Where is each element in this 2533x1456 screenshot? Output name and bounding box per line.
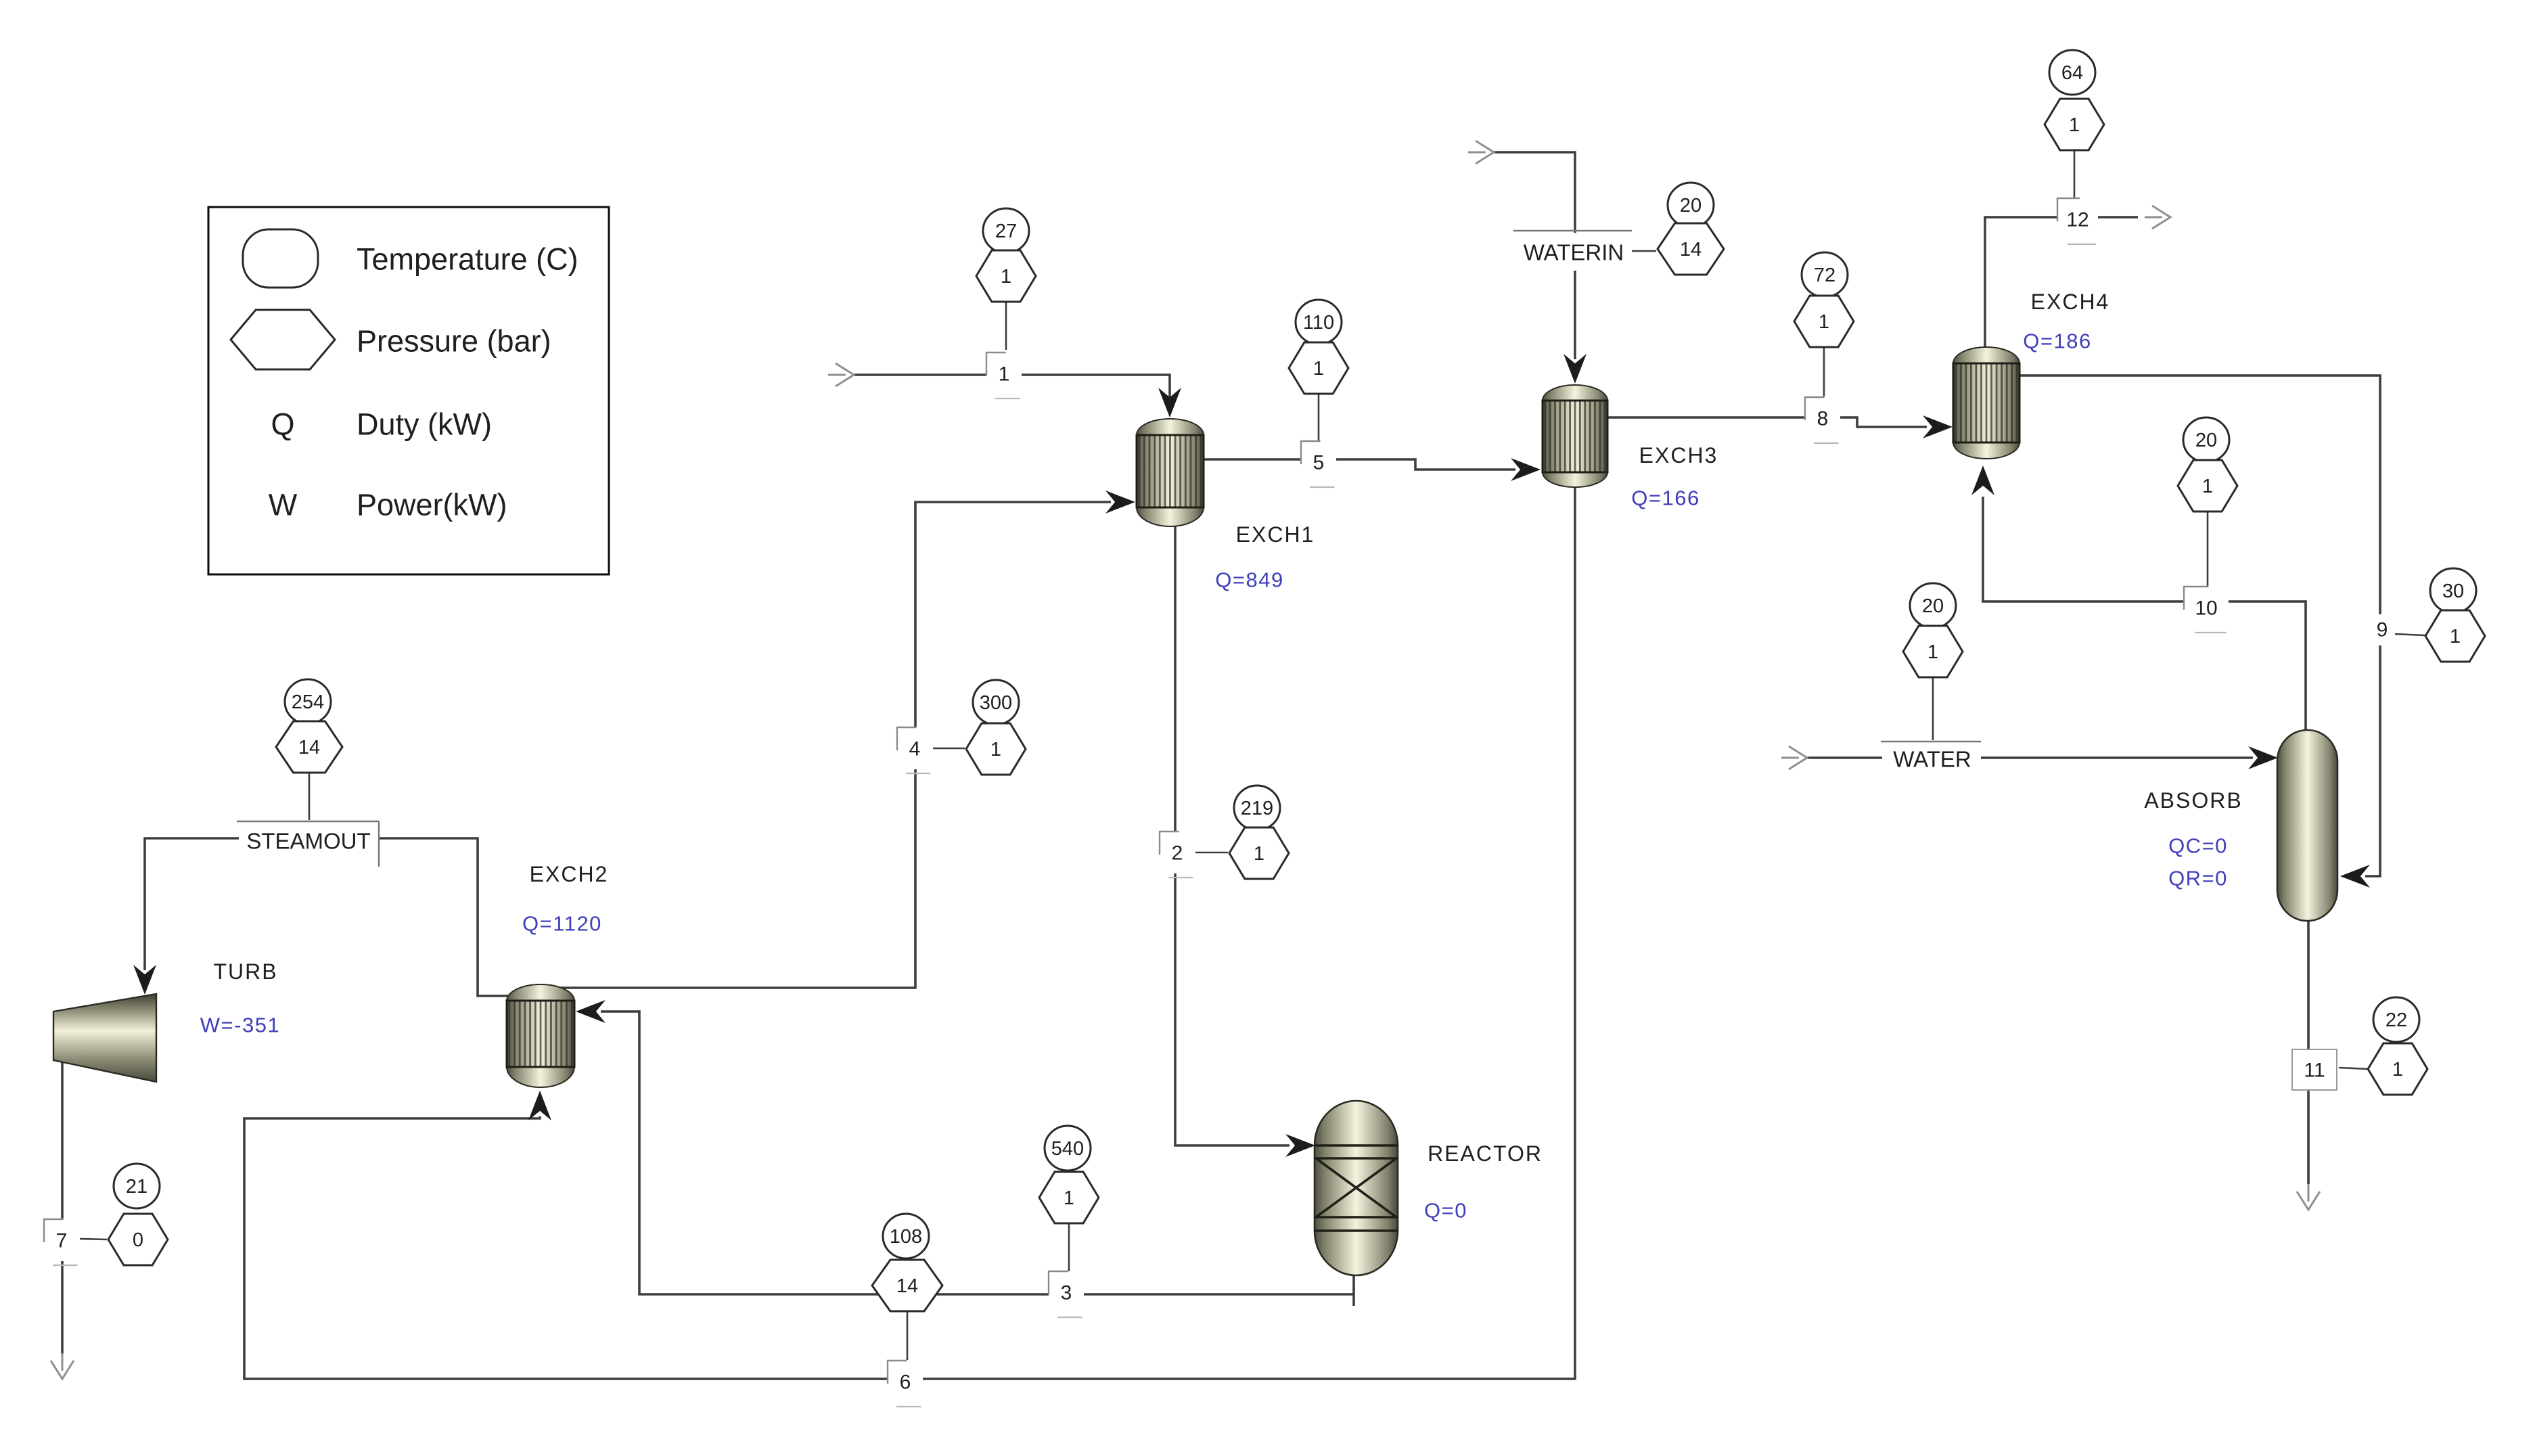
heat exchanger EXCH2	[507, 984, 574, 1087]
wire connector WATERIN indicators	[1632, 250, 1656, 252]
open arrow stream 7 product outlet	[51, 1353, 74, 1379]
svg-text:72: 72	[1814, 265, 1835, 286]
svg-text:300: 300	[980, 692, 1012, 714]
label TURB	[213, 959, 277, 984]
open arrow stream 12 product outlet	[2145, 206, 2170, 229]
arrow stream 1 into EXCH1 top	[1158, 388, 1181, 417]
arrow WATERIN into EXCH3 top	[1564, 354, 1587, 384]
heat exchanger EXCH4	[1953, 347, 2019, 459]
stream label STEAMOUT	[237, 821, 379, 867]
node stream 5 label box	[1301, 441, 1336, 487]
node stream 8 label box	[1805, 397, 1840, 443]
wire connector stream8 indicators	[1823, 346, 1825, 396]
node stream 10 label box	[2184, 587, 2229, 633]
node WATER pressure indicator	[1903, 626, 1963, 677]
node stream10 pressure indicator	[2178, 460, 2237, 511]
label EXCH2	[530, 862, 609, 886]
stream label WATERIN	[1513, 231, 1632, 271]
legend Q symbol	[271, 407, 294, 442]
node stream1 temperature indicator	[983, 208, 1029, 253]
node stream11 pressure indicator	[2368, 1043, 2427, 1095]
svg-text:QR=0: QR=0	[2168, 867, 2228, 890]
node stream8 temperature indicator	[1802, 252, 1848, 297]
svg-text:1: 1	[1064, 1187, 1074, 1209]
node stream 4 label box	[897, 727, 932, 773]
wire connector stream12 indicators	[2074, 150, 2076, 200]
svg-text:Duty (kW): Duty (kW)	[357, 407, 492, 442]
svg-text:QC=0: QC=0	[2168, 834, 2228, 858]
node stream8 pressure indicator	[1794, 296, 1854, 347]
label EXCH3 duty	[1631, 486, 1699, 510]
svg-text:540: 540	[1051, 1138, 1084, 1160]
svg-text:108: 108	[890, 1226, 922, 1248]
wire WATER feed to ABSORB	[1807, 756, 2253, 759]
wire connector STEAMOUT indicators	[309, 772, 311, 820]
legend power text	[357, 488, 507, 522]
svg-text:EXCH3: EXCH3	[1639, 443, 1718, 468]
node stream 11 label box	[2292, 1049, 2337, 1090]
svg-text:12: 12	[2066, 209, 2089, 231]
node stream 12 label box	[2057, 198, 2098, 244]
svg-text:6: 6	[900, 1371, 911, 1394]
label EXCH3	[1639, 443, 1718, 468]
wire STEAMOUT EXCH2 to TURB	[145, 838, 514, 996]
node stream 7 label box	[44, 1219, 79, 1265]
svg-text:WATERIN: WATERIN	[1524, 240, 1624, 265]
svg-text:EXCH1: EXCH1	[1236, 522, 1315, 547]
svg-text:10: 10	[2195, 597, 2217, 620]
wire stream 2 EXCH1 to REACTOR	[1175, 526, 1290, 1145]
node stream12 pressure indicator	[2045, 99, 2104, 150]
legend box	[208, 207, 609, 574]
open arrow stream 1 feed source	[828, 363, 854, 386]
svg-text:Q=0: Q=0	[1424, 1199, 1467, 1223]
svg-text:2: 2	[1172, 842, 1183, 865]
wire stream 9 EXCH4 to ABSORB	[2019, 376, 2380, 876]
node stream5 temperature indicator	[1296, 300, 1342, 344]
wire stream 4 EXCH2 to EXCH1	[547, 502, 1111, 988]
stream label WATER	[1881, 742, 1981, 774]
svg-text:30: 30	[2442, 581, 2464, 602]
svg-text:1: 1	[2069, 114, 2080, 136]
svg-text:W=-351: W=-351	[200, 1014, 280, 1037]
wire stream 6 EXCH3 to EXCH2	[244, 486, 1575, 1379]
svg-text:14: 14	[1680, 239, 1702, 260]
arrow stream 8 into EXCH4 left	[1923, 415, 1953, 438]
node stream4 pressure indicator	[966, 723, 1026, 775]
svg-text:WATER: WATER	[1893, 747, 1971, 772]
wire stream 12 EXCH4 to product	[1985, 217, 2138, 348]
label EXCH1	[1236, 522, 1315, 547]
open arrow WATERIN feed source	[1468, 141, 1494, 164]
svg-text:Q=186: Q=186	[2023, 329, 2091, 353]
svg-text:Q: Q	[271, 407, 294, 442]
svg-text:1: 1	[1254, 843, 1264, 865]
svg-text:1: 1	[1819, 311, 1829, 333]
svg-text:1: 1	[1313, 358, 1324, 380]
node WATER temperature indicator	[1910, 583, 1956, 628]
legend W symbol	[269, 488, 298, 522]
label EXCH2 duty	[522, 912, 602, 936]
label ABSORB condenser duty	[2168, 834, 2228, 858]
wire stream 1 feed line to EXCH1	[854, 375, 1170, 401]
node stream2 temperature indicator	[1234, 786, 1280, 830]
svg-text:1: 1	[2392, 1059, 2403, 1080]
legend pressure symbol	[231, 310, 335, 369]
legend duty text	[357, 407, 492, 442]
wire WATERIN feed to EXCH3	[1494, 152, 1575, 359]
heat exchanger EXCH1	[1137, 419, 1204, 526]
wire connector stream5 indicators	[1318, 393, 1320, 443]
svg-text:20: 20	[2195, 430, 2217, 451]
svg-text:27: 27	[995, 221, 1017, 242]
svg-text:1: 1	[990, 739, 1001, 760]
label EXCH4 duty	[2023, 329, 2091, 353]
node stream5 pressure indicator	[1289, 342, 1348, 394]
wire stream 3 REACTOR to EXCH2	[601, 1011, 1354, 1306]
node stream 9 label	[2371, 614, 2395, 645]
svg-text:8: 8	[1817, 408, 1829, 430]
label REACTOR	[1428, 1141, 1543, 1166]
svg-text:Pressure (bar): Pressure (bar)	[357, 324, 551, 359]
svg-text:REACTOR: REACTOR	[1428, 1141, 1543, 1166]
svg-text:4: 4	[909, 738, 921, 760]
svg-text:EXCH4: EXCH4	[2031, 290, 2110, 314]
wire stream 11 ABSORB outlet	[2307, 921, 2310, 1184]
svg-text:Q=166: Q=166	[1631, 486, 1699, 510]
svg-text:11: 11	[2304, 1060, 2325, 1082]
svg-text:TURB: TURB	[213, 959, 277, 984]
svg-text:20: 20	[1680, 195, 1702, 217]
wire connector stream3 indicators	[1068, 1223, 1070, 1273]
svg-text:Temperature (C): Temperature (C)	[357, 242, 578, 277]
node stream 3 label box	[1049, 1271, 1084, 1317]
node stream9 pressure indicator	[2425, 610, 2485, 662]
wire connector stream9 indicators	[2394, 634, 2425, 635]
svg-text:20: 20	[1922, 595, 1944, 617]
wire connector stream6 indicators	[907, 1311, 909, 1360]
node stream11 temperature indicator	[2373, 997, 2419, 1042]
arrow stream 6 into EXCH2 bottom	[528, 1091, 551, 1120]
node WATERIN pressure indicator	[1658, 223, 1724, 275]
svg-text:254: 254	[292, 691, 324, 713]
svg-text:219: 219	[1241, 798, 1273, 819]
node stream3 pressure indicator	[1039, 1172, 1099, 1223]
node stream6 temperature indicator	[883, 1214, 929, 1258]
node stream4 temperature indicator	[973, 680, 1019, 725]
label ABSORB	[2144, 788, 2242, 813]
wire connector stream4 indicators	[933, 748, 965, 750]
svg-text:W: W	[269, 488, 298, 522]
svg-text:ABSORB: ABSORB	[2144, 788, 2242, 813]
svg-text:3: 3	[1061, 1282, 1072, 1304]
node stream 1 label box	[986, 352, 1022, 399]
legend pressure text	[357, 324, 551, 359]
node stream10 temperature indicator	[2183, 417, 2229, 462]
arrow stream 2 into REACTOR left	[1285, 1134, 1315, 1157]
label TURB power	[200, 1014, 280, 1037]
wire connector stream7 indicators	[80, 1239, 107, 1239]
wire connector WATER indicators	[1932, 677, 1934, 740]
label EXCH4	[2031, 290, 2110, 314]
arrow stream 10 into EXCH4 bottom	[1971, 465, 1994, 495]
svg-text:STEAMOUT: STEAMOUT	[246, 829, 370, 854]
legend temperature text	[357, 242, 578, 277]
open arrow WATER feed source	[1781, 746, 1807, 769]
arrow stream 4 into EXCH1 left	[1105, 491, 1135, 514]
svg-text:Q=849: Q=849	[1215, 568, 1283, 592]
wire stream 8 EXCH3 to EXCH4	[1607, 417, 1927, 427]
label REACTOR duty	[1424, 1199, 1467, 1223]
node stream 2 label box	[1160, 832, 1195, 878]
node stream7 pressure indicator	[108, 1214, 168, 1265]
arrow stream 9 into ABSORB right	[2340, 865, 2370, 888]
svg-text:22: 22	[2386, 1009, 2407, 1031]
svg-text:1: 1	[2202, 476, 2213, 497]
svg-text:1: 1	[999, 363, 1010, 386]
svg-text:14: 14	[298, 737, 320, 758]
wire stream 5 EXCH1 to EXCH3	[1204, 459, 1515, 470]
wire connector stream10 indicators	[2207, 511, 2209, 588]
svg-text:5: 5	[1313, 452, 1325, 474]
wire connector stream2 indicators	[1195, 852, 1228, 854]
node stream6 pressure indicator	[872, 1260, 942, 1311]
node stream 6 label box	[888, 1361, 923, 1407]
arrow stream 5 into EXCH3 left	[1511, 458, 1541, 481]
open arrow stream 11 product outlet	[2297, 1184, 2320, 1210]
legend temperature symbol	[243, 229, 318, 288]
wire stream 10 EXCH4 to ABSORB top	[1983, 497, 2306, 732]
svg-text:1: 1	[2450, 626, 2461, 647]
svg-text:9: 9	[2377, 619, 2388, 641]
arrow WATER into ABSORB left	[2248, 746, 2278, 769]
node STEAMOUT pressure indicator	[276, 721, 342, 773]
svg-text:21: 21	[126, 1176, 147, 1198]
wire connector stream1 indicators	[1005, 300, 1007, 350]
svg-text:Q=1120: Q=1120	[522, 912, 602, 936]
svg-text:7: 7	[56, 1230, 68, 1252]
wire stream 7 TURB outlet	[61, 1062, 64, 1355]
heat exchanger EXCH3	[1543, 385, 1607, 487]
node STEAMOUT temperature indicator	[285, 679, 331, 724]
node stream1 pressure indicator	[976, 250, 1036, 302]
svg-text:1: 1	[1927, 641, 1938, 663]
node WATERIN temperature indicator	[1668, 183, 1714, 227]
absorber column ABSORB	[2277, 730, 2337, 921]
svg-text:110: 110	[1303, 312, 1334, 334]
svg-text:14: 14	[896, 1275, 918, 1297]
arrow STEAMOUT into TURB top	[133, 965, 156, 995]
turbine TURB	[53, 994, 156, 1082]
node stream3 temperature indicator	[1045, 1126, 1091, 1170]
svg-text:Power(kW): Power(kW)	[357, 488, 507, 522]
node stream12 temperature indicator	[2049, 50, 2095, 95]
label ABSORB reboiler duty	[2168, 867, 2228, 890]
node stream2 pressure indicator	[1229, 827, 1289, 879]
svg-text:1: 1	[1001, 266, 1011, 288]
wire connector stream11 indicators	[2339, 1068, 2368, 1069]
svg-text:64: 64	[2061, 62, 2083, 84]
svg-text:EXCH2: EXCH2	[530, 862, 609, 886]
node stream9 temperature indicator	[2430, 568, 2476, 613]
reactor REACTOR	[1315, 1101, 1398, 1275]
label EXCH1 duty	[1215, 568, 1283, 592]
arrow stream 3 into EXCH2 right	[576, 1000, 606, 1023]
node stream7 temperature indicator	[114, 1164, 160, 1208]
svg-text:0: 0	[133, 1229, 143, 1251]
